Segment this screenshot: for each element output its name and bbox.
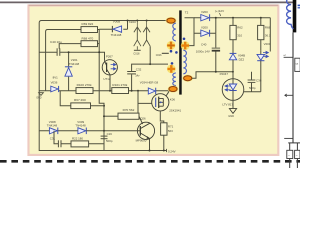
wire: Q26 emitter to bottom rail [149,138,151,150]
wire: R68 left link down to C40 [59,44,81,49]
schematic page background [29,5,279,155]
right page: blue mark top corner [298,5,300,9]
svg-text:LTV 817: LTV 817 [222,103,233,107]
svg-text:MP9000: MP9000 [136,139,147,143]
svg-text:R71: R71 [168,124,174,128]
wire: right vertical rail x99 from y29.5 to y103 then jog to x104 down to bottom rail [98,30,105,151]
svg-text:R100 270k: R100 270k [77,83,92,87]
wire: inner branch from corner x45.5 down to y90.8 [46,30,81,91]
svg-text:C36: C36 [256,78,262,82]
wire: MOSFET drain to transformer [166,91,170,96]
wire: C31/R22 branch [54,131,104,144]
svg-text:cx: cx [296,62,299,65]
wire: secondary top to rectifier [185,18,195,46]
svg-text:DZ2: DZ2 [239,58,245,62]
svg-text:TN4148: TN4148 [75,123,86,127]
svg-text:P267: P267 [106,54,113,58]
wire: outer primary loop (top rail, left rail, bottom rail) [39,21,167,151]
resistor R67 [60,91,104,109]
right page: fuse box 1 [287,150,293,158]
ground below optocoupler [228,109,236,119]
node: junction dots on y52 [68,51,101,53]
svg-text:C31: C31 [50,136,56,140]
svg-text:R62: R62 [237,26,243,30]
svg-text:C40: C40 [201,43,207,47]
svg-text:K06: K06 [170,97,176,101]
svg-text:310: 310 [237,33,242,37]
top rule line [0,1,296,3]
diode V00B (1N4148) pointing left [99,20,127,37]
wire: secondary bottom to ground bus [192,72,233,79]
svg-text:R68 470: R68 470 [82,36,94,40]
wire: y52 rail with C40 cap [39,52,104,60]
svg-text:V200: V200 [201,25,208,29]
right page: stub and label y57 [283,54,293,57]
svg-text:TN4148: TN4148 [69,62,80,66]
resistor R71 [161,123,174,151]
svg-text:R69 822: R69 822 [82,22,94,26]
capacitor C31 [50,136,61,147]
svg-text:GND: GND [228,114,234,118]
resistor R100 [76,83,93,94]
svg-text:C32: C32 [136,68,142,72]
resistor R70 [104,108,139,119]
svg-text:V200: V200 [201,10,208,14]
ground mark below X200 pin1 [133,50,140,55]
svg-text:8V1: 8V1 [53,75,59,79]
svg-text:500p: 500p [106,139,113,143]
resistor R62 [230,18,243,54]
connector X200 pin 1 [134,21,141,50]
wire: X200 pin2 to lower winding [150,63,168,65]
transformer T2 core [179,10,182,94]
diode V008 [47,120,58,134]
optocoupler U1 phototransistor [102,52,117,91]
resistor R68b [258,18,271,51]
right page: inductor coil [287,0,294,29]
wire: LED V203 return to opto [244,91,261,93]
svg-text:C016: C016 [156,54,162,57]
diode V200 b [194,25,216,36]
svg-text:~: ~ [296,153,298,157]
resistor R68 [81,36,98,46]
node: junction dots top rail [127,20,148,22]
capacitor C36 [248,72,262,92]
svg-text:14v: 14v [135,74,140,78]
wire: gate node vertical x138 [138,91,152,124]
T2 primary winding upper [166,17,177,50]
diode V036 [51,75,59,92]
wire: MOSFET source to R71 [160,111,164,123]
svg-text:R70 562: R70 562 [123,108,135,112]
label C32 [135,68,141,78]
svg-text:T2: T2 [185,11,189,15]
right page: fuse box 2 [295,150,300,158]
node: junction dots on y90.8 [109,90,139,92]
svg-text:~: ~ [288,153,290,157]
label C40 10u [50,40,62,44]
T2 secondary winding [181,38,193,82]
svg-text:500p: 500p [249,86,256,90]
wire: y130.8 run to Q26 base [39,130,140,132]
svg-text:R22 180: R22 180 [72,136,83,140]
right page: component box y58-71 [295,58,300,71]
bottom dashed separator line [0,160,300,163]
wire: +12V rail right edge drop [269,18,271,52]
zener V204 [229,53,245,71]
node: junction dot y130.8 x104 [103,105,105,132]
diode V034 HER [140,81,159,95]
svg-text:C018: C018 [133,53,140,56]
wire: V200b cathode up to +12V rail [215,18,217,34]
svg-text:V034 HER G8: V034 HER G8 [140,81,159,85]
svg-text:UT12: UT12 [103,77,110,81]
svg-text:+c: +c [283,54,286,57]
wire: V00B branch up to top rail [127,21,129,30]
svg-text:563: 563 [168,129,173,133]
connector X200 pin 2 [143,21,150,47]
node: bottom rail junction dots [149,150,165,152]
diode V200 a [194,10,270,21]
svg-text:V203: V203 [264,42,271,46]
right page: tick y95 [285,94,293,97]
svg-text:GND: GND [36,97,42,100]
resistor R101 [112,83,129,94]
capacitor C40 1000u/14V [196,33,220,71]
svg-text:R67 260: R67 260 [74,98,86,102]
wire: X200 pin2 stem down to C32 branch [132,46,151,91]
svg-text:V036: V036 [51,80,58,84]
label T2 [185,11,189,15]
svg-text:C16: C16 [107,132,113,136]
capacitor C16 [101,132,113,143]
svg-text:TN4148: TN4148 [47,123,58,127]
label 0.24V at rail end [167,149,176,154]
svg-text:TN4148: TN4148 [111,33,122,37]
right page: bottom T split [288,143,300,168]
svg-text:2SK1941: 2SK1941 [169,109,181,113]
LED V203 [257,42,271,92]
svg-text:(+)12V: (+)12V [215,9,224,13]
label +12V [215,9,224,16]
winding tap bar [156,53,169,57]
svg-text:R68: R68 [265,26,271,30]
capacitor C32 [127,72,136,74]
svg-text:R101 270k: R101 270k [112,83,127,87]
svg-text:V00B: V00B [113,20,120,24]
svg-text:X200: X200 [129,20,137,24]
transistor Q26 NPN [136,117,155,143]
diode V009 [75,120,86,134]
node: junction dots [215,17,262,73]
svg-text:1000u 14V: 1000u 14V [196,50,210,54]
optocoupler U1 LED side [220,72,244,108]
ground mark at left rail [36,93,43,100]
label X200 [129,20,137,24]
diode V201 (1N4148) vertical [65,52,80,91]
svg-text:Q26: Q26 [140,117,146,121]
svg-text:0.24V: 0.24V [168,149,176,153]
node: blue dots near upper winding [170,50,178,54]
resistor R22 [71,136,89,147]
svg-text:P2047: P2047 [220,72,229,76]
right page: tick y138 [284,137,293,139]
resistor R69 [81,22,99,32]
T2 primary winding lower [167,62,178,92]
right page: black bar [293,0,297,32]
capacitor C40 10u [57,48,60,56]
node: junction dot pin2/C32 corner [149,63,151,65]
wire: main y90.8 run [39,90,169,92]
MOSFET V1 2SK1941 [152,94,182,113]
right page: vertical wire [292,32,294,143]
